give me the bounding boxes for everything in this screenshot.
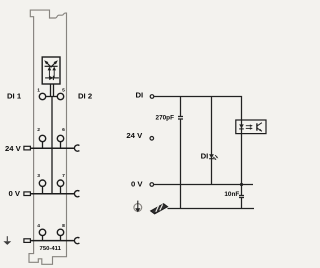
terminal 5 [57, 93, 63, 99]
svg-text:7: 7 [62, 173, 65, 179]
LED/diode block box [42, 57, 60, 84]
0V power jumper rail [24, 192, 31, 196]
terminal 3 [39, 180, 45, 186]
optocoupler phototransistor [257, 123, 262, 132]
0V terminal [150, 183, 154, 187]
svg-text:2: 2 [37, 127, 40, 133]
capacitor 270pF plates [178, 116, 183, 118]
status LEDs symbol [44, 60, 58, 78]
svg-text:24 V: 24 V [5, 144, 22, 153]
terminal 4 [39, 229, 45, 235]
terminal 2 [39, 135, 45, 141]
optocoupler U1 box [236, 120, 266, 134]
module 750-411 housing outline [29, 10, 67, 264]
terminal 7 [57, 180, 63, 186]
0V rail wire [154, 184, 253, 186]
DI terminal [150, 95, 154, 99]
optocoupler LED [239, 124, 244, 128]
capacitor 270pF branch wire [180, 97, 182, 117]
svg-text:1: 1 [37, 87, 40, 93]
functional earth symbol [134, 201, 142, 213]
earth arrow symbol [3, 236, 11, 245]
svg-text:0 V: 0 V [131, 180, 143, 189]
DIN rail contact symbol [151, 204, 168, 214]
svg-text:0 V: 0 V [9, 189, 21, 198]
24V terminal [150, 137, 154, 141]
svg-text:DI: DI [201, 152, 209, 161]
svg-text:4: 4 [37, 223, 40, 229]
capacitor 10nF plates [239, 195, 244, 197]
internal wire to 0V rail [51, 97, 53, 194]
24V power jumper rail [24, 146, 31, 150]
svg-text:750-411: 750-411 [40, 246, 62, 252]
svg-text:24 V: 24 V [126, 131, 143, 140]
svg-text:DI 1: DI 1 [7, 91, 22, 100]
junction dot [240, 183, 243, 186]
LED DI symbol [209, 154, 218, 160]
terminal 6 [57, 135, 63, 141]
LED DI branch wire [211, 97, 213, 185]
earth rail wire [168, 208, 255, 210]
svg-text:5: 5 [62, 87, 65, 93]
terminal 1 [39, 93, 45, 99]
protection diode symbol [45, 76, 59, 80]
terminal 8 [57, 229, 63, 235]
box leads to terminal row 1 [50, 84, 52, 97]
svg-text:3: 3 [37, 173, 40, 179]
svg-text:10nF: 10nF [224, 191, 239, 198]
svg-text:270pF: 270pF [156, 114, 175, 121]
svg-text:8: 8 [62, 223, 65, 229]
earth jumper rail [24, 239, 31, 243]
svg-text:DI 2: DI 2 [78, 92, 92, 101]
tick terminals 1-5 [46, 96, 57, 98]
svg-text:DI: DI [136, 90, 144, 99]
optocoupler light arrows [246, 124, 253, 129]
wire 10nF to earth rail [241, 198, 243, 209]
DI wire [154, 97, 242, 196]
svg-text:6: 6 [62, 127, 65, 133]
